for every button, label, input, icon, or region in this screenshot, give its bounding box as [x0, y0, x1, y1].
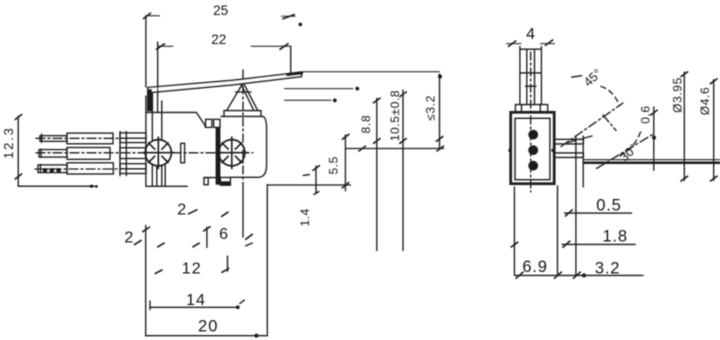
plunger centerline: [530, 52, 532, 192]
dim 22 line: [157, 44, 291, 50]
svg-text:1.8: 1.8: [603, 228, 628, 246]
bracket verticals: [152, 93, 165, 186]
ext body right bottom: [557, 186, 559, 275]
dim 12.3 dots: [90, 185, 98, 188]
bracket bottom line: [146, 185, 187, 187]
svg-text:Ø3.95: Ø3.95: [671, 77, 685, 113]
body outline right: [231, 116, 267, 177]
screw hole left: [143, 137, 175, 169]
row ticks y245: [158, 243, 200, 247]
screw hole right: [217, 137, 249, 169]
dim 8.8 line: [374, 98, 381, 250]
svg-text:10.5±0.8: 10.5±0.8: [388, 90, 402, 141]
terminal pin 3: [38, 163, 146, 174]
pcb section lines: [120, 132, 126, 176]
node dot 3.2 top: [438, 75, 442, 79]
dim 1.8 line: [562, 241, 635, 247]
dim 5.5 line: [342, 134, 349, 191]
dim 1.4 line: [303, 166, 319, 195]
node dot lower: [333, 99, 337, 103]
svg-text:25: 25: [213, 3, 228, 18]
lever rest line thin: [584, 159, 720, 161]
dim bottom dot: [582, 273, 586, 277]
solder blobs on pin 3: [43, 168, 61, 173]
plunger centerline: [242, 70, 244, 180]
divider rect between screws: [181, 143, 185, 163]
terminal pin 1 centerline: [36, 137, 118, 139]
terminal dots: [508, 130, 554, 171]
dim 20 line: [146, 335, 268, 337]
dim d4.6 line: [710, 79, 717, 181]
dash small left: [568, 136, 593, 143]
dim 0.6 dot: [652, 136, 656, 140]
body inner: [515, 118, 550, 179]
small ext under foot: [204, 227, 211, 248]
ref line y150: [346, 146, 444, 151]
plunger cone: [227, 83, 258, 111]
dim 12 ticks: [155, 256, 229, 274]
plunger base plate: [221, 111, 263, 117]
foot 1: [204, 178, 208, 185]
terminal pin 3 centerline: [35, 168, 118, 170]
ext line mid: [285, 88, 354, 90]
dark slot bar: [216, 128, 221, 185]
body outer: [511, 112, 555, 183]
terminal pin 2 centerline: [36, 152, 253, 154]
dim d3.95 line: [681, 72, 688, 181]
svg-text:22: 22: [211, 32, 226, 47]
ext vertical through lever b: [582, 136, 584, 187]
svg-text:5.5: 5.5: [327, 156, 341, 174]
svg-text:6: 6: [219, 226, 228, 243]
dim 22 ext right: [290, 46, 292, 73]
ext line right vertical: [266, 185, 268, 336]
dim 20 ext line: [143, 225, 150, 335]
dim 4 line: [507, 40, 555, 46]
svg-text:0.6: 0.6: [639, 106, 653, 124]
dim 14 line: [150, 300, 244, 309]
lever tip thick: [288, 73, 302, 75]
lever side view upper: [554, 139, 583, 144]
ext line body bottom right: [267, 184, 350, 186]
svg-text:3.2: 3.2: [595, 260, 620, 278]
dim 0.6 line: [651, 107, 658, 170]
dim 12.3 line: [15, 115, 97, 187]
dim 25 line: [144, 13, 296, 19]
svg-text:20: 20: [198, 317, 218, 335]
svg-text:4: 4: [526, 26, 535, 43]
node dot mid: [355, 87, 359, 91]
svg-text:≤3.2: ≤3.2: [424, 95, 438, 121]
arc under 45: [601, 87, 620, 106]
dim 6 line: [243, 182, 252, 246]
lever side view lower: [554, 153, 583, 158]
svg-text:12: 12: [182, 261, 202, 278]
flange: [515, 105, 547, 113]
svg-text:14: 14: [186, 292, 206, 309]
svg-text:12.3: 12.3: [1, 126, 16, 159]
dim bottom line: [515, 272, 643, 278]
dim 2 upper ticks: [189, 210, 228, 217]
ext line lower: [285, 99, 332, 101]
svg-text:2: 2: [124, 229, 133, 246]
terminal pin 2: [39, 148, 146, 160]
ext vertical through lever a: [575, 136, 577, 275]
arc 30: [620, 132, 641, 156]
lever rest line thick: [584, 162, 720, 165]
dim 0.5 line: [565, 210, 632, 216]
dim 3.2 line: [436, 74, 443, 149]
terminal pin 1: [40, 133, 146, 144]
foot 2: [220, 177, 230, 185]
svg-text:8.8: 8.8: [359, 114, 373, 133]
diag 30 ray: [597, 135, 653, 169]
svg-text:0.5: 0.5: [596, 197, 621, 215]
actuator buttons: [206, 119, 220, 127]
ext body left bottom: [513, 187, 515, 275]
leader 45: [572, 76, 582, 78]
lever pivot bar: [148, 89, 152, 111]
diag 45 ray: [561, 103, 623, 147]
dim 20 dot: [254, 334, 258, 338]
dim 25 ext line left: [145, 16, 147, 87]
svg-text:Ø4.6: Ø4.6: [698, 87, 712, 115]
lever arm: [148, 72, 302, 110]
dim 2 left ticks: [135, 240, 142, 244]
svg-text:2: 2: [177, 201, 186, 218]
dim 14 dot: [236, 305, 240, 309]
dim 22 ext left: [157, 42, 159, 95]
body bottom left segment: [204, 177, 216, 179]
ext line lever tip top: [303, 71, 440, 73]
diag mid dash: [603, 115, 616, 131]
body top edge: [146, 112, 205, 126]
dim 10.5 line: [400, 90, 407, 251]
plunger tube: [520, 47, 542, 105]
mounting bracket left edge: [145, 96, 147, 186]
svg-text:1.4: 1.4: [298, 208, 312, 226]
svg-text:6.9: 6.9: [522, 258, 547, 276]
dim 25 dot: [299, 23, 303, 27]
